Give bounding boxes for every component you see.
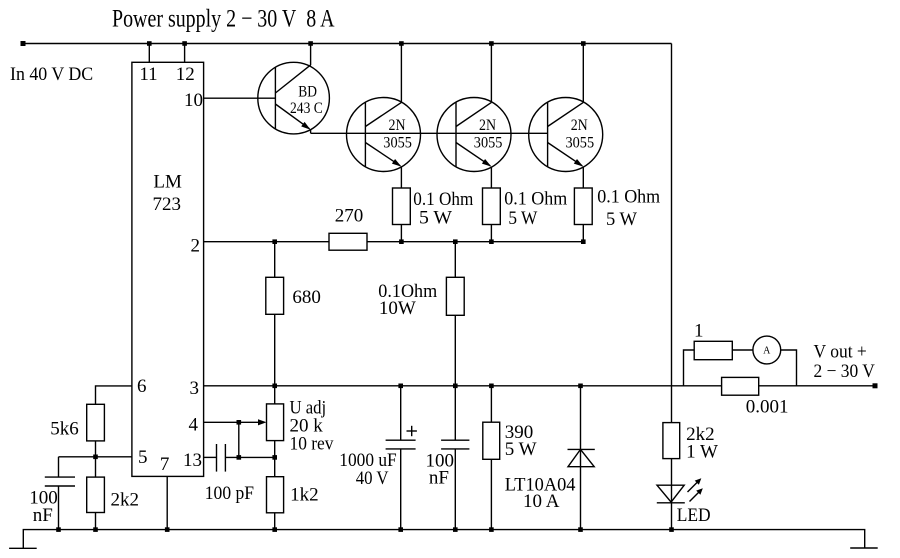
ground right <box>850 547 878 549</box>
node junction 5k6/2k2 <box>93 455 98 460</box>
resistor RE1 0.1 Ohm 5W <box>393 188 474 242</box>
node junction 100nF mid bottom <box>453 527 458 532</box>
wire pin 3 output row <box>204 385 722 387</box>
svg-text:nF: nF <box>33 505 53 526</box>
transistor Q4 2N3055 <box>529 44 603 189</box>
resistor RE2 0.1 Ohm 5W <box>483 188 568 242</box>
capacitor C 100nF left <box>29 457 75 530</box>
wire right rail <box>671 44 673 423</box>
node junction pot bottom/1k2 <box>272 455 277 460</box>
svg-text:1k2: 1k2 <box>290 485 319 506</box>
node junction RE1/row2 <box>399 239 404 244</box>
svg-text:7: 7 <box>160 454 170 475</box>
node junction 390 top <box>489 384 494 389</box>
node input terminal <box>21 41 26 46</box>
svg-text:A: A <box>763 346 771 357</box>
wire pin 7 lead <box>166 476 168 529</box>
svg-text:2k2: 2k2 <box>111 489 140 510</box>
node junction pin11/rail <box>147 41 152 46</box>
ammeter M1 <box>753 336 781 364</box>
wire top rail <box>23 43 672 45</box>
wire pin 6 lead <box>96 386 132 404</box>
node junction 1k2 bottom <box>272 527 277 532</box>
svg-text:2 − 30 V: 2 − 30 V <box>814 361 876 382</box>
resistor R1 1 Ohm <box>694 321 732 360</box>
resistor R270 <box>329 205 367 250</box>
resistor R 0.1 Ohm 10W <box>378 242 464 386</box>
node junction pin13 link <box>237 455 242 460</box>
node junction diode top <box>578 384 583 389</box>
wire pin 10 lead <box>204 97 276 99</box>
node junction pin12/rail <box>182 41 187 46</box>
svg-text:2N: 2N <box>571 117 588 134</box>
svg-text:LM: LM <box>153 172 182 193</box>
svg-text:12: 12 <box>176 64 195 85</box>
svg-text:10: 10 <box>184 90 203 111</box>
wire base rail <box>311 132 548 134</box>
svg-text:0.1 Ohm: 0.1 Ohm <box>504 189 567 210</box>
diode D LT10A04 <box>505 386 595 530</box>
resistor R 2k2 left <box>87 457 139 530</box>
svg-text:BD: BD <box>298 83 317 100</box>
node junction Q3 collector/rail <box>489 41 494 46</box>
node junction 100nF top <box>453 384 458 389</box>
node output terminal <box>873 383 878 388</box>
svg-text:5 W: 5 W <box>419 208 452 229</box>
node junction Q1 collector/rail <box>308 41 313 46</box>
capacitor C 100nF mid <box>426 386 470 530</box>
resistor R 0.001 shunt <box>722 377 789 417</box>
svg-text:3055: 3055 <box>566 134 595 151</box>
resistor RE3 0.1 Ohm 5W <box>574 187 660 242</box>
svg-text:4: 4 <box>189 415 199 436</box>
svg-text:2: 2 <box>191 235 201 256</box>
node junction 390 bottom <box>489 527 494 532</box>
svg-text:5 W: 5 W <box>606 209 637 230</box>
wire resistor to ammeter <box>732 349 753 351</box>
wire pin 12 lead <box>184 44 186 63</box>
node junction RE3/row2 end <box>581 239 586 244</box>
transistor Q1 BD243C <box>258 44 330 134</box>
node junction Q4 collector/rail <box>581 41 586 46</box>
node junction RE2/row2 <box>489 239 494 244</box>
svg-text:0.1 Ohm: 0.1 Ohm <box>597 187 660 208</box>
svg-text:11: 11 <box>139 64 157 85</box>
svg-text:3055: 3055 <box>474 134 503 151</box>
resistor R 2k2 1W <box>663 423 718 486</box>
svg-text:5 W: 5 W <box>508 208 537 229</box>
node junction 1000uF bottom <box>398 527 403 532</box>
node junction 680 top <box>272 239 277 244</box>
svg-text:5: 5 <box>138 447 148 468</box>
node junction pin4/tap <box>237 420 242 425</box>
svg-text:2N: 2N <box>479 117 496 134</box>
LED D2 <box>657 478 711 529</box>
svg-text:In 40 V DC: In 40 V DC <box>10 64 93 85</box>
potentiometer U adj 20k <box>204 386 334 458</box>
svg-text:5k6: 5k6 <box>50 419 78 440</box>
wire pin4-pin13 link <box>238 422 240 457</box>
resistor R680 <box>266 242 321 386</box>
svg-text:V out +: V out + <box>814 342 867 363</box>
transistor Q3 2N3055 <box>437 44 511 189</box>
node junction Q2 collector/rail <box>399 41 404 46</box>
capacitor C 1000uF 40V <box>339 386 417 530</box>
node junction 2k2 bottom <box>93 527 98 532</box>
node junction pot top <box>272 384 277 389</box>
IC U1 LM723 <box>132 62 204 476</box>
svg-text:13: 13 <box>183 450 202 471</box>
svg-text:3055: 3055 <box>383 134 412 151</box>
capacitor C 100pF <box>204 444 275 504</box>
svg-text:10W: 10W <box>379 298 416 319</box>
resistor R390 5W <box>483 386 537 530</box>
wire ammeter branch left <box>684 350 695 386</box>
svg-text:10 rev: 10 rev <box>290 434 334 455</box>
resistor R 5k6 <box>50 404 104 457</box>
svg-text:6: 6 <box>137 376 147 397</box>
node junction 100nF bottom <box>56 527 61 532</box>
svg-text:10 A: 10 A <box>523 491 560 512</box>
wire pin 2 row <box>204 241 329 243</box>
svg-text:3: 3 <box>190 378 200 399</box>
svg-text:0.001: 0.001 <box>746 396 789 417</box>
svg-text:nF: nF <box>429 468 449 489</box>
node junction diode bottom <box>578 527 583 532</box>
svg-text:5 W: 5 W <box>505 439 537 460</box>
node junction 1000uF top <box>398 384 403 389</box>
wire ammeter branch right <box>781 350 797 386</box>
wire pin 5 lead <box>59 456 132 458</box>
wire pin 11 lead <box>148 44 150 63</box>
svg-text:270: 270 <box>335 205 364 226</box>
transistor Q2 2N3055 <box>347 44 421 189</box>
ground left <box>9 547 37 549</box>
resistor R 1k2 <box>267 457 319 529</box>
svg-text:723: 723 <box>153 194 182 215</box>
svg-text:1: 1 <box>694 321 704 342</box>
wire bottom ground row <box>23 530 864 549</box>
svg-text:2N: 2N <box>389 117 406 134</box>
svg-text:Power supply 2 − 30 V 8 A: Power supply 2 − 30 V 8 A <box>112 5 335 32</box>
svg-text:LED: LED <box>677 505 711 526</box>
svg-text:243 C: 243 C <box>290 100 323 117</box>
svg-text:680: 680 <box>292 287 321 308</box>
svg-text:100 pF: 100 pF <box>205 483 254 504</box>
svg-text:40 V: 40 V <box>356 468 389 489</box>
node junction 10W top <box>453 239 458 244</box>
node junction LED bottom <box>669 527 674 532</box>
node junction pin7 bottom <box>165 527 170 532</box>
svg-text:1 W: 1 W <box>686 442 718 463</box>
